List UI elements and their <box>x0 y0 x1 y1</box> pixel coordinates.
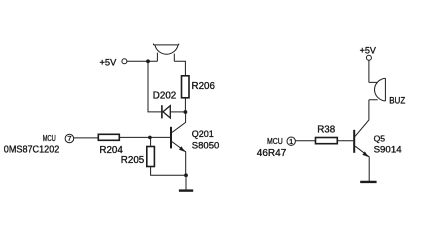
wire D202 anode to collector node <box>170 111 185 113</box>
wire R205 to emitter rail <box>151 167 186 176</box>
svg-text:1: 1 <box>289 137 293 146</box>
svg-text:R205: R205 <box>121 155 145 166</box>
ground (left) <box>179 189 193 191</box>
transistor Q5 emitter stroke <box>355 146 369 181</box>
diode D202 cathode bar <box>161 105 163 118</box>
ground (right) <box>360 181 376 183</box>
terminal +5V (left) open circle <box>122 59 127 64</box>
wire +5V dot down to D202 <box>148 61 162 112</box>
wire R206 to collector node <box>184 98 186 112</box>
speaker LS (left circuit) <box>154 44 179 62</box>
transistor Q5 base bar <box>353 130 355 153</box>
transistor Q5 emitter arrow <box>362 151 368 157</box>
wire R38 to Q5 base <box>337 140 353 142</box>
wire R204 to base node <box>119 136 171 138</box>
wire +5V down to buzzer <box>368 60 370 82</box>
diode D202 triangle <box>163 106 170 118</box>
wire pin1 to R38 <box>296 140 316 142</box>
resistor R204 body <box>98 134 119 140</box>
svg-text:+5V: +5V <box>360 46 376 56</box>
wire +5V rail to speaker left leg <box>127 60 157 62</box>
svg-text:BUZ: BUZ <box>389 95 406 105</box>
junction +5V/D202 dot <box>146 59 150 63</box>
wire to ground (left) <box>185 175 187 189</box>
resistor R38 body <box>316 138 338 144</box>
svg-text:R206: R206 <box>192 81 216 92</box>
junction base node dot <box>148 136 152 140</box>
wire buzzer to Q5 collector <box>355 100 369 137</box>
svg-text:MCU: MCU <box>43 134 56 143</box>
buzzer BUZ symbol <box>369 78 386 101</box>
wire base node down to R205 <box>150 137 152 146</box>
resistor R205 body <box>147 147 155 167</box>
junction collector node dot <box>184 110 188 114</box>
resistor R206 body <box>182 76 190 98</box>
svg-text:0MS87C1202: 0MS87C1202 <box>4 145 60 156</box>
svg-text:R38: R38 <box>317 125 336 136</box>
transistor Q201 base bar <box>170 127 172 149</box>
svg-text:D202: D202 <box>153 90 176 101</box>
transistor Q201 emitter stroke <box>172 142 186 176</box>
svg-text:Q5: Q5 <box>374 133 386 143</box>
transistor Q201 emitter arrow <box>179 146 185 152</box>
svg-text:S9014: S9014 <box>374 144 402 155</box>
svg-text:Q201: Q201 <box>192 129 214 139</box>
svg-text:MCU: MCU <box>267 137 283 146</box>
svg-text:46R47: 46R47 <box>257 148 287 159</box>
terminal +5V (right) open circle <box>366 55 371 60</box>
svg-text:+5V: +5V <box>100 57 118 67</box>
transistor Q201 collector stroke <box>172 112 186 133</box>
svg-text:S8050: S8050 <box>192 140 219 151</box>
wire pin7 to R204 <box>74 137 99 139</box>
svg-text:7: 7 <box>67 134 71 143</box>
pin 1 circle <box>287 137 295 145</box>
svg-text:R204: R204 <box>99 145 123 156</box>
pin 7 circle <box>65 134 74 143</box>
wire speaker right leg to R206 <box>174 61 185 76</box>
junction emitter/ground dot <box>184 173 188 177</box>
